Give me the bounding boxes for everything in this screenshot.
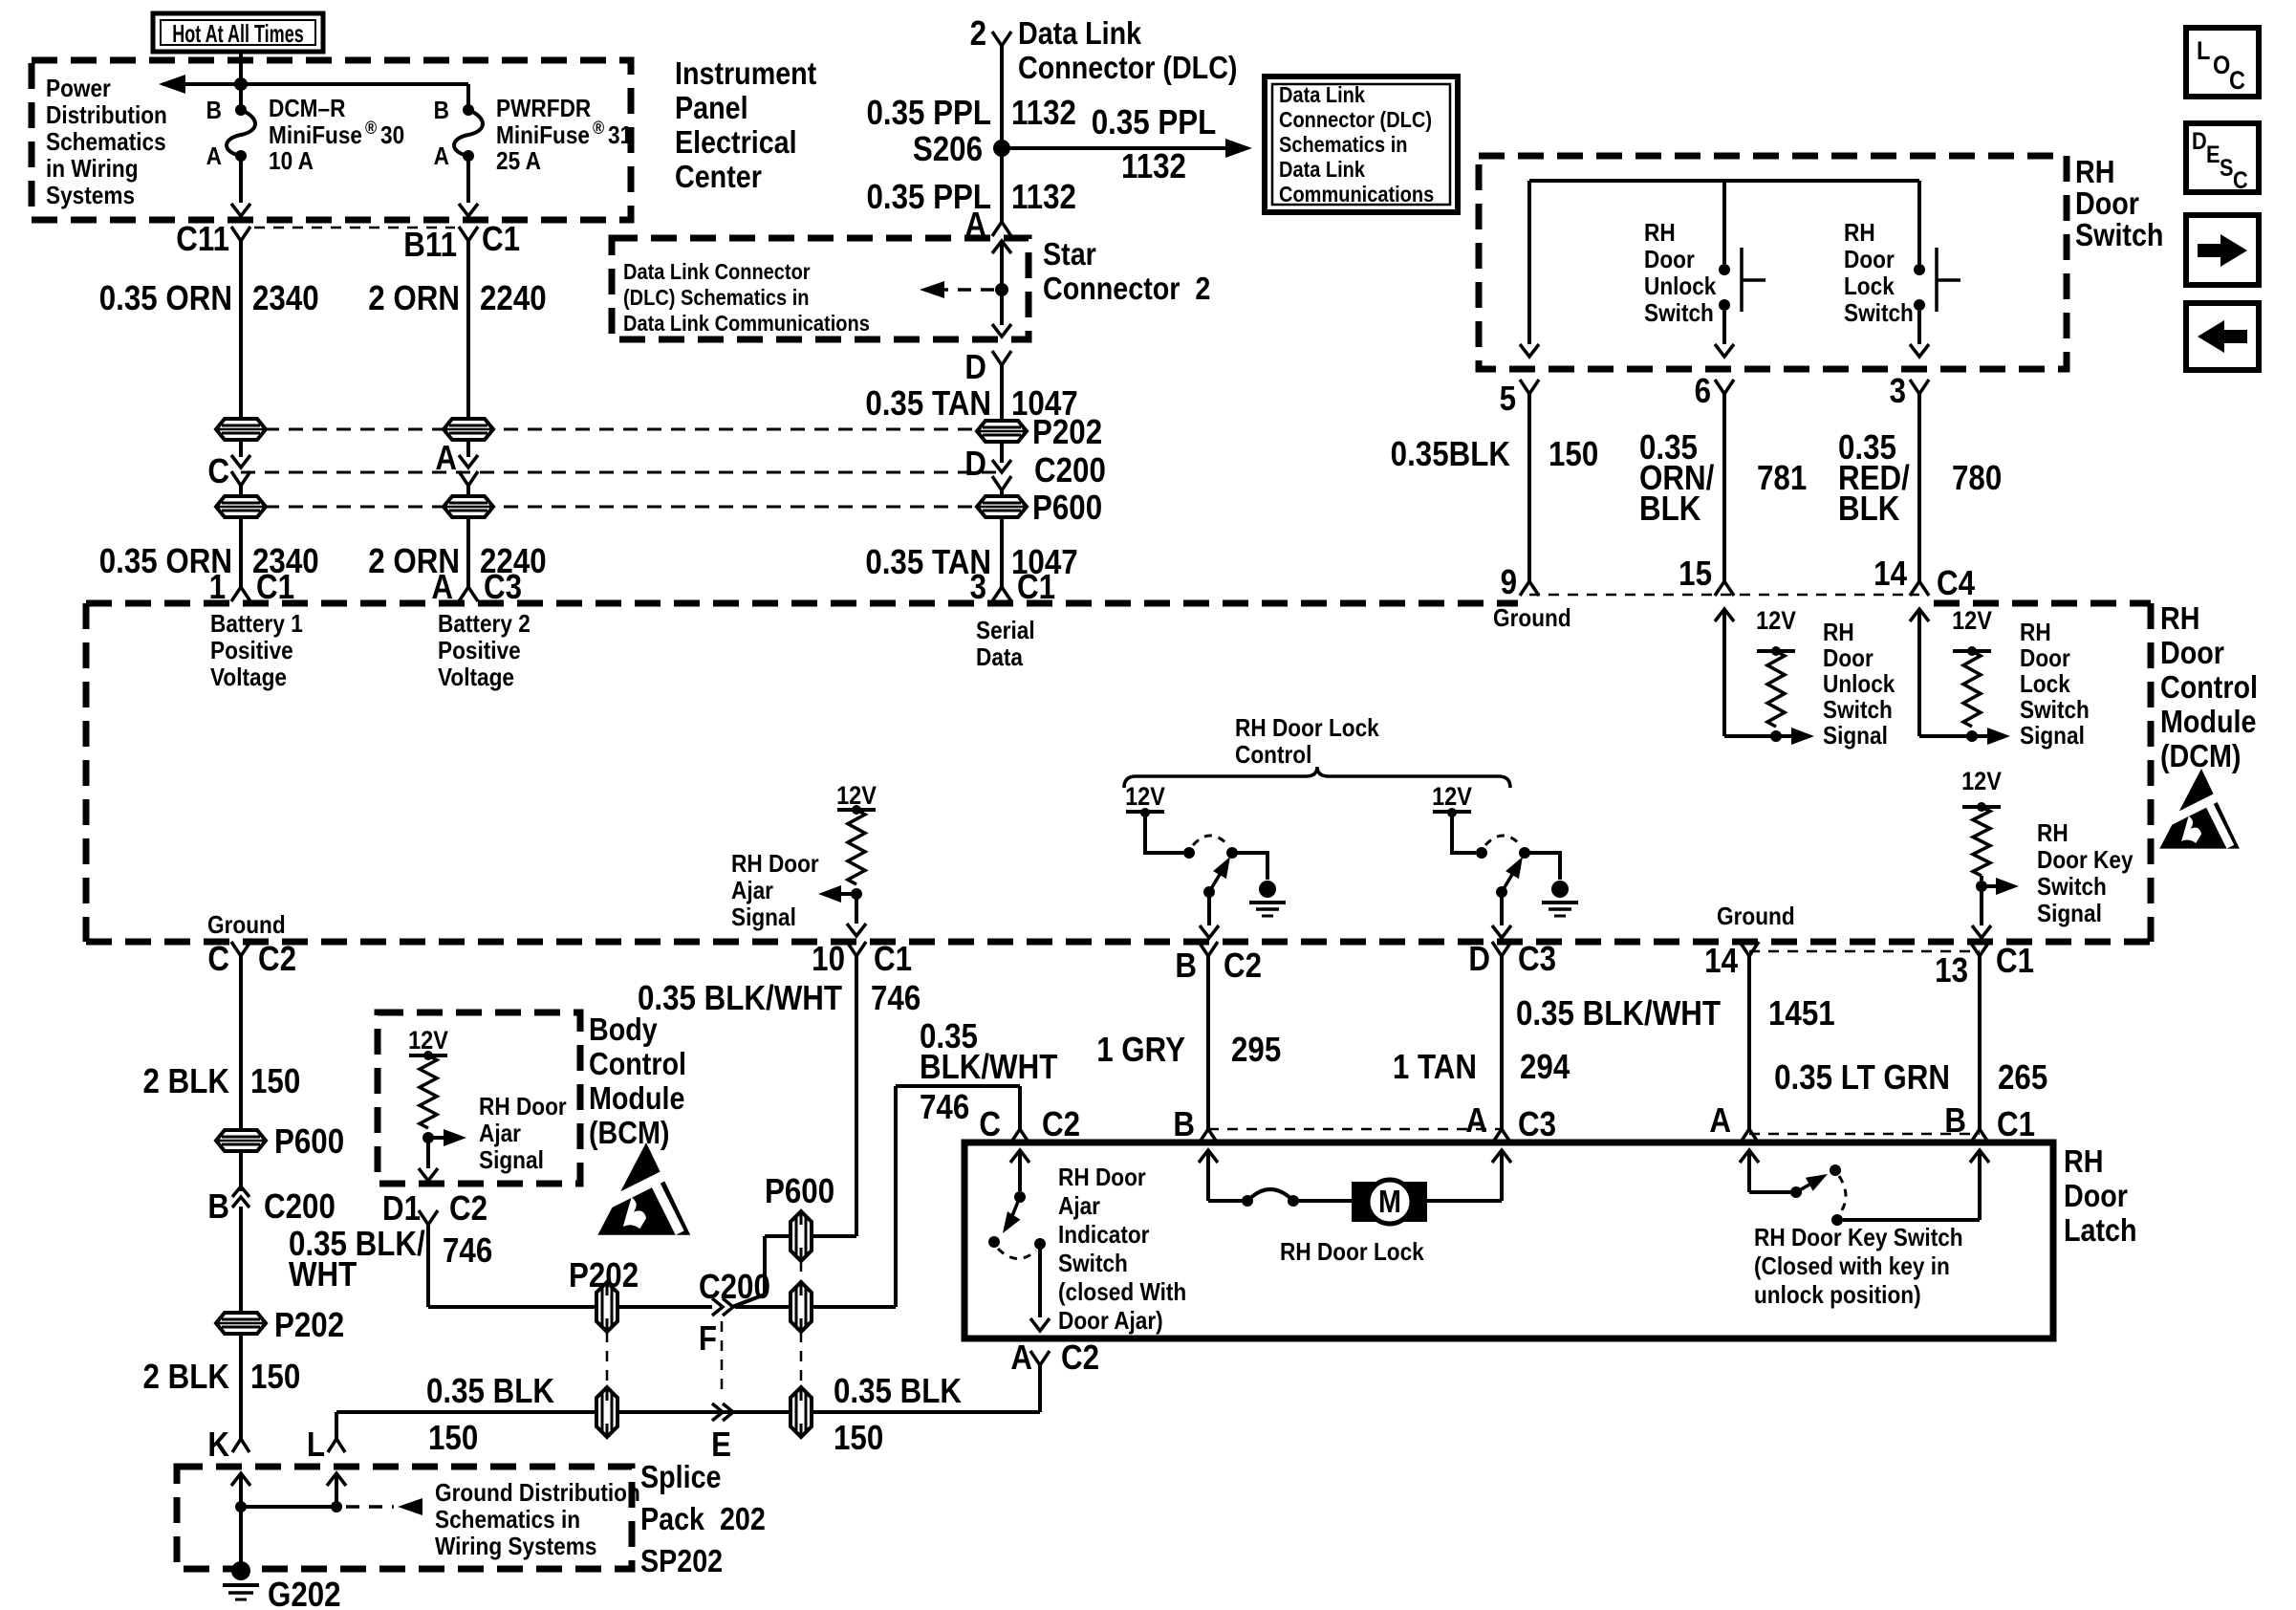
BCM ajar wire down	[419, 1138, 438, 1181]
svg-text:746: 746	[871, 979, 921, 1018]
pin 15	[1679, 555, 1734, 596]
svg-text:Schematics: Schematics	[46, 129, 166, 157]
wire 14 to latch	[1740, 956, 1759, 1143]
svg-text:E: E	[2206, 141, 2220, 168]
wire label 1 GRY 295	[1096, 1031, 1281, 1070]
svg-text:2 BLK: 2 BLK	[143, 1062, 230, 1101]
lock switch lower wire	[1910, 311, 1929, 357]
svg-text:Switch: Switch	[2020, 697, 2090, 725]
svg-text:10 A: 10 A	[269, 148, 314, 176]
Ground Distribution text	[435, 1480, 640, 1561]
svg-text:RH: RH	[1844, 220, 1875, 248]
svg-text:746: 746	[920, 1088, 969, 1127]
wire seg	[239, 1151, 243, 1191]
ESD symbol DCM	[2159, 769, 2240, 849]
BCM ajar arrow	[428, 1129, 466, 1146]
svg-text:(Closed with key in: (Closed with key in	[1754, 1253, 1950, 1281]
wire P600 to C200	[732, 1236, 791, 1307]
latch key contact	[1830, 1164, 1846, 1226]
svg-text:Control: Control	[589, 1046, 686, 1081]
svg-text:RH: RH	[1644, 220, 1676, 248]
svg-text:10: 10	[812, 940, 845, 979]
svg-text:Data: Data	[976, 644, 1023, 672]
svg-text:12V: 12V	[1961, 768, 2002, 796]
star connector wire	[992, 241, 1011, 337]
previous arrow box	[2186, 303, 2259, 370]
pin A C2 below latch	[1010, 1338, 1099, 1378]
svg-text:O: O	[2213, 52, 2230, 80]
svg-text:DCM–R: DCM–R	[269, 96, 346, 123]
svg-text:Switch: Switch	[2075, 217, 2163, 252]
svg-text:MiniFuse: MiniFuse	[269, 122, 362, 150]
svg-text:A: A	[435, 439, 457, 478]
Battery 1 Positive Voltage text	[210, 611, 303, 692]
svg-text:12V: 12V	[408, 1027, 448, 1055]
svg-text:1132: 1132	[1011, 178, 1076, 217]
pin 14 bottom	[1704, 942, 1759, 981]
svg-text:Communications: Communications	[1279, 182, 1434, 207]
svg-text:MiniFuse: MiniFuse	[496, 122, 590, 150]
svg-text:1132: 1132	[1011, 94, 1076, 133]
RH Door Ajar Signal text DCM	[731, 851, 819, 932]
svg-text:®: ®	[593, 118, 604, 138]
svg-text:Door: Door	[1644, 247, 1695, 274]
wire B C2 to latch	[1199, 956, 1218, 1143]
svg-text:Wiring Systems: Wiring Systems	[435, 1534, 596, 1561]
wire label 0.35 PPL 1132 lower	[866, 178, 1075, 217]
svg-text:13: 13	[1935, 951, 1968, 990]
wire label 0.35 PPL 1132 upper	[866, 94, 1075, 133]
svg-text:Schematics in: Schematics in	[1279, 132, 1408, 158]
svg-text:12V: 12V	[1432, 783, 1472, 812]
svg-text:Ground Distribution: Ground Distribution	[435, 1480, 640, 1508]
svg-text:C2: C2	[449, 1189, 487, 1229]
svg-text:C4: C4	[1937, 564, 1975, 603]
key switch signal arrow	[1982, 878, 2019, 895]
wire fuse31 output	[459, 156, 478, 216]
svg-text:Instrument: Instrument	[675, 55, 816, 91]
pin 14	[1874, 555, 1929, 596]
pin C11	[176, 220, 250, 284]
connector line 14-13 top	[1749, 950, 1980, 953]
connector line C11-B11	[254, 227, 455, 229]
dashed link P202 column	[606, 1332, 609, 1387]
svg-text:C1: C1	[874, 940, 912, 979]
svg-text:Positive: Positive	[438, 638, 521, 665]
Splice Pack dashed box	[177, 1467, 632, 1569]
svg-text:265: 265	[1998, 1058, 2047, 1098]
wire label 2 ORN 2240 lower	[368, 542, 546, 581]
pass-through C on wire1	[207, 452, 250, 491]
wire1 between connectors 2	[239, 486, 243, 496]
pass-through D C200	[964, 445, 1105, 490]
fuse DCM-R MiniFuse 30	[206, 84, 255, 170]
svg-text:1 GRY: 1 GRY	[1096, 1031, 1185, 1070]
svg-text:RH Door Lock: RH Door Lock	[1280, 1239, 1424, 1267]
lock control brace	[1124, 767, 1510, 788]
wire label 0.35 ORN/BLK 781	[1639, 428, 1807, 529]
Data Link Communications reference text	[1279, 82, 1434, 207]
svg-text:14: 14	[1704, 942, 1738, 981]
RH Door Lock text	[1280, 1239, 1424, 1267]
wire label 0.35BLK 150	[1391, 435, 1599, 474]
svg-text:781: 781	[1757, 459, 1807, 498]
wire label 0.35 LT GRN 265	[1774, 1058, 2047, 1098]
lock control switch1 12V	[1125, 783, 1165, 817]
serial wire seg	[1000, 442, 1004, 463]
unlock signal arrow	[1724, 728, 1814, 745]
svg-text:D: D	[1468, 940, 1490, 979]
wire P202 to C200 chevron	[617, 1305, 712, 1309]
motor wire right	[1427, 1150, 1511, 1201]
svg-text:Module: Module	[589, 1080, 684, 1116]
inline connector P600 on wire2	[444, 496, 493, 517]
svg-text:Panel: Panel	[675, 90, 748, 125]
RH Door Key Switch text	[1754, 1225, 1963, 1310]
svg-text:BLK: BLK	[1838, 490, 1900, 529]
inline connector P600 on serial wire	[977, 489, 1102, 528]
svg-text:Voltage: Voltage	[438, 664, 514, 692]
svg-text:Data Link: Data Link	[1018, 15, 1142, 51]
door switch bus wire	[1529, 179, 1919, 183]
RH Door Unlock Switch text	[1644, 220, 1717, 328]
svg-text:14: 14	[1874, 555, 1907, 594]
svg-text:C2: C2	[258, 940, 296, 979]
dashed connector line P202 row	[241, 428, 1002, 431]
svg-text:(DCM): (DCM)	[2160, 738, 2241, 773]
svg-text:Signal: Signal	[1823, 723, 1888, 751]
RH Door Lock Switch text	[1844, 220, 1914, 328]
svg-text:0.35 BLK: 0.35 BLK	[834, 1372, 963, 1411]
Data Link Connector (DLC) title	[1018, 15, 1237, 85]
wire C200 to corner	[735, 1305, 791, 1309]
ajar signal wire down	[847, 894, 866, 936]
lock control switch1 wires	[1145, 812, 1183, 853]
wire seg2	[239, 1207, 243, 1313]
pin 10 C1	[812, 940, 912, 979]
pin L	[307, 1425, 345, 1465]
wire label 0.35 BLK/WHT 746 latch	[920, 1017, 1058, 1127]
wire S206 to DLC comm box	[1002, 139, 1252, 158]
ground wire 150	[336, 1365, 1040, 1439]
BCM ajar resistor	[408, 1027, 448, 1143]
svg-text:Door: Door	[2020, 645, 2070, 673]
lock switch contacts	[1914, 248, 1960, 312]
Power Distribution Schematics text	[46, 76, 167, 210]
lock control switch1 contacts	[1183, 836, 1238, 859]
svg-text:Data Link Connector: Data Link Connector	[623, 259, 811, 285]
svg-text:780: 780	[1952, 459, 2002, 498]
wire label 0.35 BLK/WHT 746 BCM	[289, 1225, 492, 1295]
svg-text:Door: Door	[2160, 635, 2224, 670]
svg-text:Ground: Ground	[207, 912, 286, 940]
svg-text:Door Ajar): Door Ajar)	[1058, 1308, 1163, 1336]
inline connector P600 column bottom	[791, 1387, 812, 1437]
wire D C3 to latch	[1492, 956, 1511, 1143]
RH Door Lock Control text	[1235, 715, 1379, 770]
dashed connector line C200 row	[241, 471, 1002, 474]
motor contact arc	[1242, 1189, 1299, 1207]
svg-text:0.35BLK: 0.35BLK	[1391, 435, 1511, 474]
fuse PWRFDR MiniFuse 31	[434, 98, 483, 171]
dashed link C200 column	[721, 1321, 724, 1398]
svg-text:150: 150	[428, 1419, 478, 1458]
latch pin A label	[1709, 1101, 1731, 1141]
Hot At All Times label box	[153, 13, 323, 52]
svg-text:Positive: Positive	[210, 638, 293, 665]
svg-text:P600: P600	[765, 1172, 834, 1211]
latch ajar wire	[1010, 1150, 1029, 1203]
DLC wire upper	[1000, 46, 1004, 140]
svg-text:Door: Door	[1844, 247, 1895, 274]
svg-text:WHT: WHT	[289, 1255, 357, 1295]
RH Door Ajar Signal text BCM	[479, 1094, 567, 1175]
svg-text:0.35 LT GRN: 0.35 LT GRN	[1774, 1058, 1950, 1098]
Instrument Panel Electrical Center dashed box	[32, 60, 631, 220]
svg-text:2340: 2340	[252, 279, 319, 318]
svg-text:1132: 1132	[1121, 147, 1186, 186]
svg-text:Signal: Signal	[479, 1147, 544, 1175]
wire battery1 upper	[239, 284, 243, 419]
wire2 to DCM	[466, 517, 470, 587]
wire BCM to P202	[428, 1225, 596, 1307]
svg-text:C1: C1	[1997, 1105, 2035, 1144]
splice S206	[913, 130, 1010, 169]
svg-text:RH: RH	[2075, 154, 2114, 189]
svg-text:RH: RH	[2020, 620, 2051, 647]
wire to corner 746	[812, 1086, 1020, 1307]
star connector node	[995, 283, 1008, 296]
svg-text:D: D	[2192, 128, 2207, 155]
svg-text:Door: Door	[2075, 185, 2139, 221]
svg-text:Battery 1: Battery 1	[210, 611, 303, 639]
svg-text:Electrical: Electrical	[675, 124, 797, 160]
svg-text:0.35 PPL: 0.35 PPL	[866, 94, 991, 133]
RH Door Latch box	[964, 1142, 2053, 1338]
svg-text:RH: RH	[2037, 820, 2069, 848]
svg-text:Control: Control	[2160, 669, 2258, 705]
motor wire	[1299, 1199, 1352, 1203]
Body Control Module title	[589, 1012, 686, 1150]
svg-text:150: 150	[834, 1419, 883, 1458]
inline connector P600 on wire1	[216, 496, 266, 517]
key switch signal wire down	[1972, 886, 1991, 938]
svg-text:C2: C2	[1061, 1338, 1099, 1378]
svg-text:RH Door Key Switch: RH Door Key Switch	[1754, 1225, 1963, 1252]
lock control switch2 12V	[1432, 783, 1472, 817]
svg-text:30: 30	[380, 122, 404, 150]
wire label 0.35 ORN 2340	[99, 279, 319, 318]
svg-text:C200: C200	[699, 1268, 770, 1307]
svg-text:12V: 12V	[1952, 607, 1992, 636]
resistor key switch signal	[1961, 768, 2002, 892]
wire label 2 BLK 150 lower	[143, 1358, 301, 1397]
power bus wire	[162, 84, 468, 105]
svg-text:C2: C2	[1224, 946, 1262, 986]
svg-text:M: M	[1378, 1184, 1401, 1219]
ESD symbol BCM	[597, 1142, 690, 1235]
wire1 to DCM	[239, 517, 243, 587]
svg-text:B: B	[1944, 1101, 1966, 1141]
svg-text:Control: Control	[1235, 742, 1311, 770]
svg-text:A: A	[1709, 1101, 1731, 1141]
svg-text:Power: Power	[46, 76, 111, 103]
svg-text:Lock: Lock	[1844, 273, 1895, 301]
svg-text:BLK/WHT: BLK/WHT	[920, 1048, 1058, 1087]
label C4	[1937, 564, 1975, 603]
lock control switch1 down	[1200, 892, 1219, 938]
lock control switch2 arm	[1496, 857, 1523, 898]
inline connector P202 on serial wire	[977, 413, 1102, 452]
svg-text:294: 294	[1520, 1048, 1570, 1087]
pin A C3 at DCM	[431, 568, 522, 607]
svg-text:E: E	[711, 1425, 731, 1465]
svg-text:(BCM): (BCM)	[589, 1115, 669, 1150]
svg-text:Ajar: Ajar	[731, 878, 773, 905]
splice L arrow	[327, 1473, 346, 1507]
wire to G202	[239, 1507, 243, 1562]
resistor unlock signal	[1756, 607, 1796, 742]
pin C C2	[207, 940, 296, 979]
svg-text:2 BLK: 2 BLK	[143, 1358, 230, 1397]
wire to pin 15	[1715, 609, 1734, 736]
latch pin C C2 label	[979, 1105, 1080, 1144]
svg-text:RH Door: RH Door	[479, 1094, 567, 1121]
svg-text:Lock: Lock	[2020, 671, 2070, 699]
pin 2 of DLC	[970, 14, 1011, 54]
svg-text:0.35 BLK/WHT: 0.35 BLK/WHT	[638, 979, 842, 1018]
svg-text:D: D	[964, 445, 986, 484]
svg-text:C1: C1	[1996, 942, 2034, 981]
Ground text pin14	[1717, 903, 1795, 931]
wire label 0.35 TAN 1047 upper	[865, 384, 1077, 424]
svg-text:C: C	[207, 940, 229, 979]
wire label 0.35 RED/BLK 780	[1838, 428, 2002, 529]
svg-text:C200: C200	[264, 1187, 336, 1227]
svg-text:Distribution: Distribution	[46, 102, 167, 130]
svg-text:P600: P600	[1032, 489, 1102, 528]
RH Door Control Module dashed box bottom	[86, 939, 2151, 946]
wire fuse30 output	[231, 156, 250, 216]
svg-text:S206: S206	[913, 130, 983, 169]
svg-text:Indicator: Indicator	[1058, 1222, 1150, 1250]
svg-text:Battery 2: Battery 2	[438, 611, 531, 639]
dashed connector line P600 row	[241, 506, 1002, 509]
svg-text:1 TAN: 1 TAN	[1393, 1048, 1477, 1087]
latch pin A C3 label	[1465, 1101, 1556, 1144]
wire label 0.35 BLK 150 right	[834, 1372, 963, 1458]
wire 781 to DCM	[1722, 394, 1726, 581]
svg-text:150: 150	[250, 1358, 300, 1397]
svg-text:B: B	[207, 1187, 229, 1227]
svg-text:SP202: SP202	[640, 1543, 723, 1578]
star connector dashed stub arrow	[920, 281, 994, 298]
RH Door Switch dashed box	[1479, 156, 2067, 369]
svg-text:0.35 PPL: 0.35 PPL	[1092, 103, 1217, 142]
svg-text:Unlock: Unlock	[1823, 671, 1895, 699]
wire 150 to DCM	[1527, 394, 1531, 581]
svg-text:RH: RH	[1823, 620, 1854, 647]
svg-text:Data Link: Data Link	[1279, 82, 1365, 108]
pin 5	[1500, 380, 1539, 419]
pass-through F C200	[699, 1268, 770, 1359]
svg-text:F: F	[699, 1319, 717, 1359]
wire label 0.35 ORN 2340 lower	[99, 542, 319, 581]
inline connector P202 left	[216, 1306, 344, 1345]
svg-text:P600: P600	[274, 1122, 344, 1162]
svg-text:C3: C3	[1518, 1105, 1556, 1144]
svg-text:150: 150	[1549, 435, 1598, 474]
svg-text:B: B	[1175, 946, 1197, 986]
latch pin B label	[1173, 1105, 1195, 1144]
RH Door Unlock Switch Signal text	[1823, 620, 1895, 751]
svg-text:C: C	[2233, 167, 2248, 194]
wire label 0.35 BLK/WHT 746 pin10	[638, 979, 921, 1018]
label G202	[268, 1576, 341, 1610]
svg-text:C: C	[2229, 67, 2245, 96]
latch motor wire B	[1199, 1150, 1242, 1201]
Instrument Panel Electrical Center title	[675, 55, 816, 194]
svg-text:RH: RH	[2064, 1143, 2103, 1179]
svg-text:Connector (DLC): Connector (DLC)	[1018, 50, 1237, 85]
svg-text:2 ORN: 2 ORN	[368, 279, 460, 318]
svg-text:A: A	[206, 143, 222, 171]
svg-text:Star: Star	[1043, 236, 1096, 272]
RH Door Lock Switch Signal text	[2020, 620, 2090, 751]
latch key wire B	[1843, 1150, 1989, 1220]
svg-text:Data Link: Data Link	[1279, 157, 1365, 183]
latch pin B C1 label	[1944, 1101, 2035, 1144]
svg-text:746: 746	[443, 1231, 492, 1271]
next arrow box	[2186, 215, 2259, 285]
lock control switch2 ground	[1525, 853, 1578, 916]
svg-text:Systems: Systems	[46, 183, 135, 210]
svg-text:Ground: Ground	[1493, 605, 1571, 633]
svg-text:unlock position): unlock position)	[1754, 1282, 1921, 1310]
svg-text:in Wiring: in Wiring	[46, 156, 139, 184]
svg-text:Door: Door	[1823, 645, 1874, 673]
pass-through B C200	[207, 1186, 335, 1227]
svg-text:BLK: BLK	[1639, 490, 1701, 529]
svg-text:Signal: Signal	[731, 904, 796, 932]
svg-text:Data Link Communications: Data Link Communications	[623, 311, 870, 337]
connector C4 line	[1529, 594, 1919, 597]
wire C C2 down	[239, 956, 243, 1130]
RH Door Ajar Indicator Switch text	[1058, 1164, 1186, 1336]
svg-text:C200: C200	[1034, 451, 1106, 490]
svg-text:25 A: 25 A	[496, 148, 541, 176]
svg-text:B: B	[206, 98, 222, 125]
inline connector P202 column bottom	[596, 1387, 617, 1437]
wire label 0.35 BLK/WHT 1451	[1516, 994, 1835, 1033]
RH Door Control Module dashed box top right	[1934, 600, 2151, 607]
pin A into star connector	[964, 206, 1011, 245]
svg-text:D: D	[964, 348, 986, 387]
svg-text:31: 31	[608, 122, 632, 150]
inline connector P202 on wire2	[444, 419, 493, 440]
svg-text:0.35 BLK: 0.35 BLK	[426, 1372, 555, 1411]
svg-text:Signal: Signal	[2037, 901, 2102, 928]
svg-text:0.35 BLK/WHT: 0.35 BLK/WHT	[1516, 994, 1721, 1033]
pin 6	[1695, 372, 1734, 411]
lock control switch2 down	[1492, 892, 1511, 938]
svg-text:Door Key: Door Key	[2037, 847, 2134, 875]
svg-text:Hot At All Times: Hot At All Times	[172, 21, 303, 49]
RH Door Control Module dashed box top left	[86, 600, 1518, 607]
svg-text:1451: 1451	[1768, 994, 1835, 1033]
pin B11 C1	[403, 220, 520, 284]
pass-through A on wire2	[435, 439, 478, 486]
